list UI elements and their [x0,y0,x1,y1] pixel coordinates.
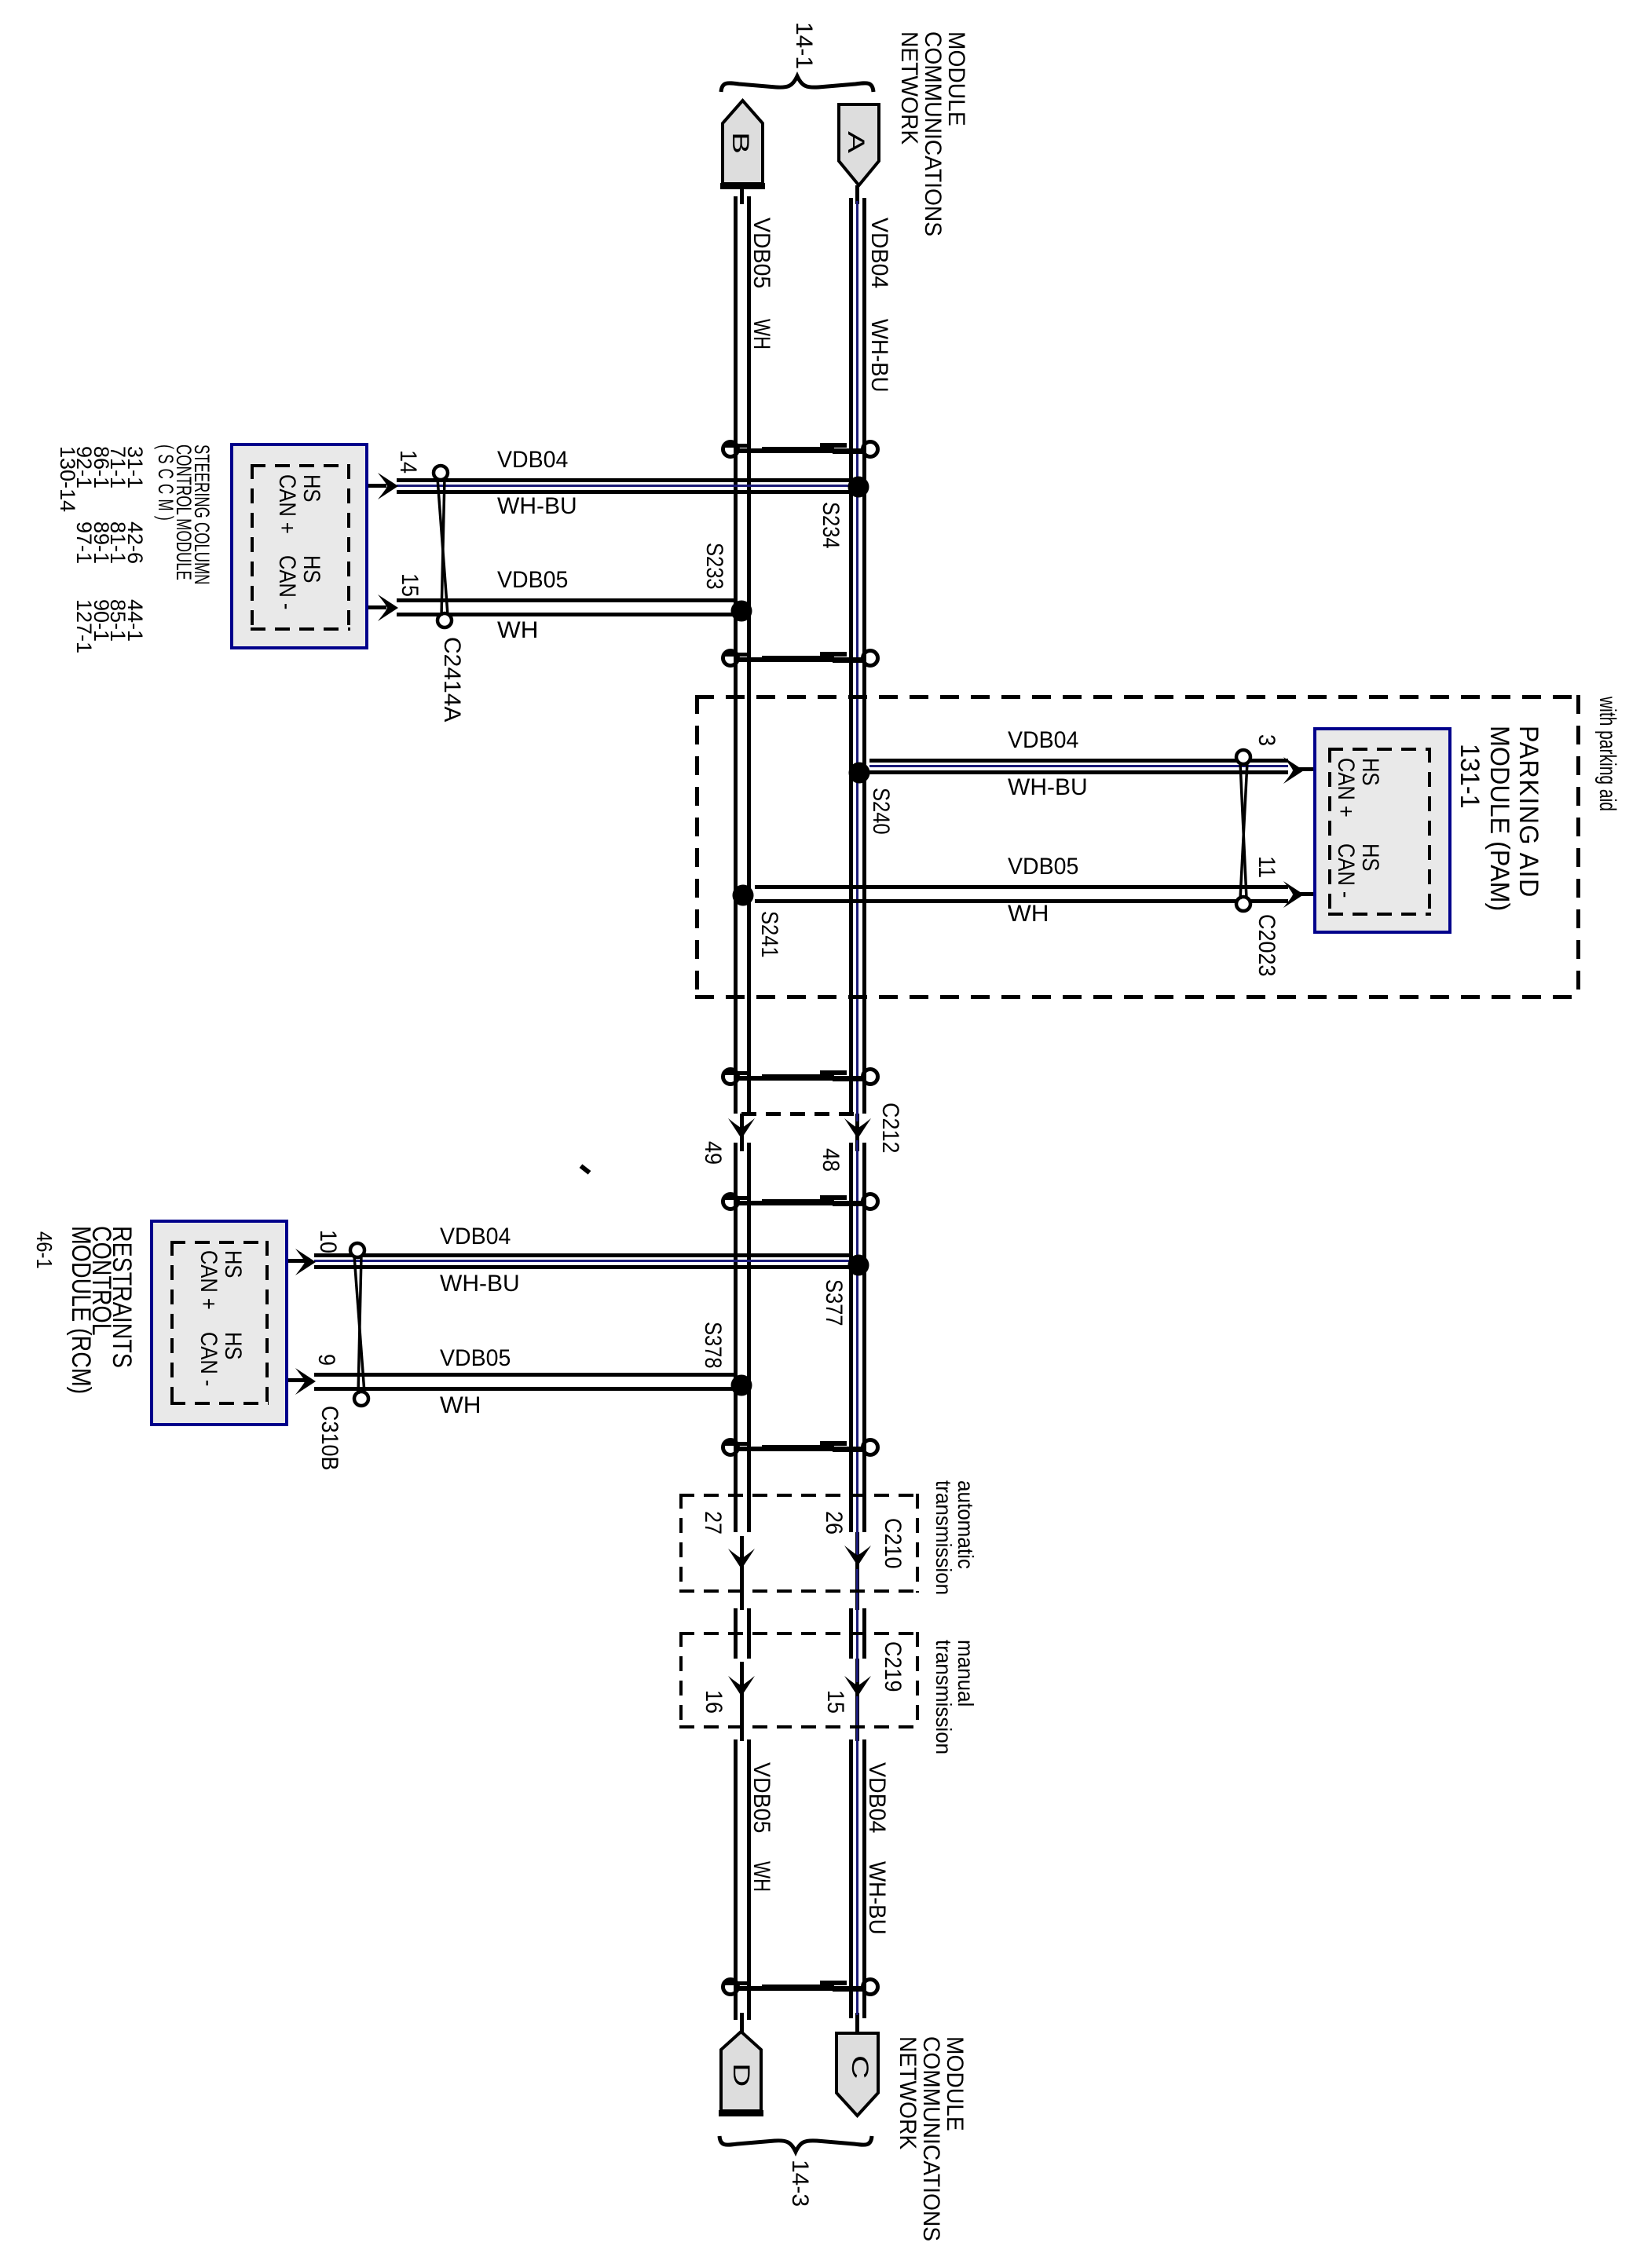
connector label C310B [317,1406,341,1471]
dashed option box: automatic transmission (C210) [679,1494,919,1497]
brace 14-1 (top) [721,76,873,92]
pin text HS CAN- (RCM) [196,1332,245,1386]
label VDB04 (bottom) [865,1762,888,1833]
wire VDB04 SCCM branch upper [397,478,852,482]
twisted-pair symbol T3 [723,1070,878,1085]
pin text HS CAN- (PAM) [1334,843,1382,898]
module box PAM (parking aid module) [1313,727,1451,934]
module PAM (parking aid module) inner dashed box [1328,748,1431,751]
label manual transmission [932,1640,976,1754]
label VDB05 (bottom) [749,1762,773,1833]
reference numbers column 1 (SCCM) [59,446,144,512]
arrow at RCM pin 10 [295,1249,316,1275]
wire VDB05 RCM branch upper [314,1373,735,1377]
splice label S378 [701,1322,724,1369]
pin text HS CAN+ (SCCM) [275,474,324,534]
flag arrow C (to 14-3, pointing down) [836,2033,878,2116]
pin label 27 (C210) [701,1511,724,1535]
wire VDB04 bus single seg5 [855,2013,859,2037]
stray mark [580,1164,591,1174]
connector label C2023 [1254,914,1278,977]
wire VDB05 SCCM branch upper [397,598,735,602]
label VDB05 (PAM branch) [1008,855,1078,879]
wire VDB05 bus pair-right seg1 [747,196,751,1114]
wire VDB04 RCM branch upper [314,1253,852,1257]
wire VDB05 bus pair-right seg2 [747,1143,751,1532]
label WH-BU (SCCM branch) [497,495,577,518]
dashed option box: with parking aid [695,695,1580,699]
arrow at C219 pin 16 [728,1676,755,1696]
wire VDB05 bus pair-left seg1 [734,196,738,1114]
module box SCCM (steering column control module) [230,443,368,649]
arrow at C219 pin 15 [844,1676,871,1696]
flag arrow A (from 14-1, pointing down) [839,104,879,185]
twisted-pair symbol T1 [723,442,878,457]
pin label 26 (C210) [822,1511,845,1535]
pin label 14 (SCCM) [396,450,419,474]
wire VDB05 bus single seg2 [740,1114,744,1151]
arrow at SCCM pin 15 [378,594,398,621]
flag arrow D (from 14-3, pointing up) [719,2032,763,2116]
splice label S377 [822,1279,845,1326]
pin label 16 (C219) [701,1690,725,1714]
wire VDB05 RCM branch lower [314,1387,735,1391]
pin label 15 (SCCM) [397,573,421,597]
wire VDB05 bus single seg1 [740,189,744,204]
wire VDB04 bus single seg3 [855,1532,859,1610]
wire VDB04 blue stripe seg4 [856,1696,858,2015]
arrow at C212 pin 49 [728,1118,755,1139]
wire RCM pin9 stub [269,1378,306,1382]
wire SCCM pin14 stub [350,484,386,488]
wire RCM pin10 stub [269,1259,306,1263]
wire VDB04 bus single seg1 [855,185,859,204]
label WH-BU (RCM branch) [440,1272,520,1296]
arrow at C210 pin 27 [728,1549,755,1569]
wire VDB05 bus single seg4 [740,1662,744,1741]
wire VDB05 bus pair-right seg3 [747,1608,751,1659]
arrow at RCM pin 9 [295,1368,316,1395]
brace 14-3 (bottom) [719,2136,872,2152]
arrow at PAM pin 11 [1283,881,1304,908]
splice label S234 [818,502,842,549]
wire VDB04 bus pair-left seg2 [849,1143,853,1532]
splice S241 [733,885,754,906]
connector C212 dashed separation line [741,1112,855,1116]
module box RCM (restraints control module) [150,1220,288,1426]
module name label SCCM [156,444,210,585]
label module communications network (bottom) [895,2036,966,2241]
connector label C212 [878,1103,902,1154]
module RCM (restraints control module) inner dashed box [170,1241,269,1244]
connector label C2414A [440,637,463,722]
wire VDB04 PAM branch upper [869,759,1288,763]
wire VDB04 blue stripe seg2 [856,1140,858,1555]
connector C2023 symbol [1236,750,1250,911]
label VDB04 (top) [867,218,891,288]
splice S233 [731,601,752,622]
label WH-BU (top) [867,319,891,393]
module SCCM (steering column control module) inner dashed box [251,464,350,467]
wire SCCM pin15 stub [350,605,386,609]
wire VDB05 bus pair-left seg3 [734,1608,738,1659]
flag letter C [847,2055,871,2079]
label VDB05 (SCCM branch) [497,569,568,592]
label VDB05 (top) [749,218,773,288]
label VDB04 (SCCM branch) [497,448,568,472]
module name label PAM [1484,726,1543,911]
pin text HS CAN- (SCCM) [275,555,324,609]
wire VDB04 blue stripe seg3 [856,1569,858,1682]
arrow at C212 pin 48 [844,1118,871,1139]
flag letter A [844,131,867,153]
wire VDB04 RCM branch blue stripe [314,1260,852,1262]
pin text HS CAN+ (RCM) [196,1250,245,1310]
wire VDB04 RCM branch lower [314,1265,852,1269]
wire VDB05 bus pair-left seg2 [734,1143,738,1532]
label WH (top) [749,319,773,349]
connector label C219 [880,1641,904,1692]
label WH (bottom) [749,1861,773,1892]
module reference 131-1 (PAM) [1456,744,1483,809]
wire VDB04 bus pair-right seg3 [862,1608,866,1659]
splice S378 [731,1375,752,1396]
label WH (RCM branch) [440,1394,481,1417]
arrow at PAM pin 3 [1283,757,1304,784]
label WH-BU (bottom) [865,1861,888,1935]
wire VDB04 bus pair-left seg3 [849,1608,853,1659]
twisted-pair symbol T2 [723,651,878,666]
wire VDB05 bus pair-right seg4 [747,1739,751,2020]
pin label 49 (C212) [701,1141,724,1165]
arrow at C210 pin 26 [844,1546,871,1566]
wire VDB04 bus pair-right seg2 [862,1143,866,1532]
wire VDB05 PAM branch upper [755,885,1288,889]
splice S377 [848,1255,869,1276]
wire VDB04 SCCM branch lower [397,490,852,494]
wire VDB04 bus pair-right seg4 [862,1739,866,2018]
wire VDB04 SCCM branch blue stripe [397,485,855,487]
label module communications network (top) [897,31,968,236]
label WH (SCCM branch) [497,619,538,642]
reference numbers column 2 (SCCM) [75,521,143,564]
splice label S241 [757,911,781,958]
connector C2414A symbol [434,466,452,627]
flag letter D [729,2063,752,2087]
label WH (PAM branch) [1008,902,1049,926]
label 14-3 (bottom brace) [788,2160,811,2207]
pin label 9 (RCM) [314,1354,338,1366]
label WH-BU (PAM branch) [1008,776,1088,799]
pin text HS CAN+ (PAM) [1334,758,1382,818]
reference number 46-1 (RCM) [33,1231,55,1269]
label VDB05 (RCM branch) [440,1347,511,1370]
wire PAM pin11 stub [1296,892,1328,896]
dashed option box: manual transmission (C219) [679,1632,919,1635]
wire VDB04 bus pair-right seg1 [862,198,866,1114]
pin label 15 (C219) [823,1690,847,1714]
label automatic transmission [932,1480,976,1595]
wire VDB04 bus pair-left seg4 [849,1739,853,2018]
wire VDB05 bus single seg3 [740,1536,744,1610]
wire VDB04 PAM branch lower [869,770,1288,774]
twisted-pair symbol T5 [723,1440,878,1455]
label VDB04 (RCM branch) [440,1225,511,1249]
splice S234 [848,477,869,498]
wire VDB04 bus pair-left seg1 [849,198,853,1114]
pin label 3 (PAM) [1254,734,1278,746]
connector C310B symbol [350,1243,368,1406]
pin label 48 (C212) [818,1148,842,1172]
wire VDB05 PAM branch lower [755,899,1288,903]
reference numbers column 3 (SCCM) [75,599,143,653]
twisted-pair symbol T4 [723,1194,878,1209]
splice label S233 [702,543,726,590]
wire VDB04 blue stripe seg1 [856,201,858,1121]
wire VDB04 bus single seg4 [855,1659,859,1741]
wire VDB05 SCCM branch lower [397,613,735,616]
splice S240 [849,763,870,784]
flag letter B [728,132,752,154]
wire VDB04 PAM branch blue stripe [869,765,1288,767]
splice label S240 [869,788,892,835]
pin label 10 (RCM) [316,1230,339,1253]
label with parking aid [1595,697,1619,811]
label 14-1 (top brace) [792,22,815,69]
twisted-pair symbol T6 [723,1980,878,1995]
wire PAM pin3 stub [1296,767,1328,771]
wire VDB05 bus single seg5 [740,2013,744,2036]
wire VDB05 bus pair-left seg4 [734,1739,738,2020]
connector label C210 [880,1518,904,1569]
wire VDB04 bus single seg2 [855,1114,859,1151]
pin label 11 (PAM) [1254,856,1278,878]
flag arrow B (to 14-1, pointing up) [720,101,765,189]
module name label RCM [71,1226,132,1394]
label VDB04 (PAM branch) [1008,729,1078,752]
arrow at SCCM pin 14 [378,473,398,499]
